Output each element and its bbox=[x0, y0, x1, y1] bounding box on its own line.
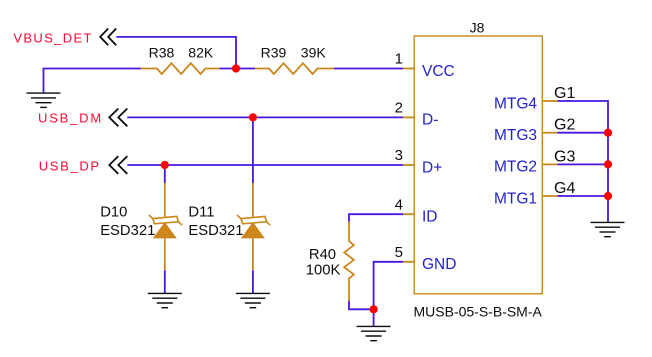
svg-text:R38: R38 bbox=[149, 45, 175, 61]
svg-text:ESD321: ESD321 bbox=[188, 223, 243, 239]
svg-text:G3: G3 bbox=[554, 148, 575, 165]
svg-text:VCC: VCC bbox=[422, 63, 455, 80]
svg-text:J8: J8 bbox=[470, 20, 485, 36]
svg-text:4: 4 bbox=[395, 196, 403, 213]
svg-text:MTG1: MTG1 bbox=[494, 190, 537, 207]
svg-text:D-: D- bbox=[422, 112, 438, 129]
svg-text:VBUS_DET: VBUS_DET bbox=[13, 30, 92, 45]
svg-text:1: 1 bbox=[395, 51, 403, 68]
svg-text:ESD321: ESD321 bbox=[100, 223, 155, 239]
svg-text:R39: R39 bbox=[261, 45, 287, 61]
svg-text:G2: G2 bbox=[554, 117, 575, 134]
svg-text:GND: GND bbox=[422, 256, 456, 273]
svg-text:ID: ID bbox=[422, 209, 438, 226]
svg-text:MUSB-05-S-B-SM-A: MUSB-05-S-B-SM-A bbox=[414, 304, 543, 320]
svg-text:MTG4: MTG4 bbox=[494, 95, 537, 112]
svg-text:D+: D+ bbox=[422, 159, 442, 176]
svg-text:5: 5 bbox=[395, 244, 403, 261]
svg-text:MTG2: MTG2 bbox=[494, 159, 537, 176]
svg-text:D11: D11 bbox=[188, 205, 214, 221]
svg-text:2: 2 bbox=[395, 100, 403, 117]
svg-text:100K: 100K bbox=[306, 263, 341, 279]
svg-text:G1: G1 bbox=[554, 85, 575, 102]
svg-text:USB_DP: USB_DP bbox=[39, 159, 101, 174]
svg-text:R40: R40 bbox=[309, 247, 336, 263]
svg-text:3: 3 bbox=[395, 147, 403, 164]
svg-text:MTG3: MTG3 bbox=[494, 127, 537, 144]
svg-text:D10: D10 bbox=[100, 205, 127, 221]
svg-text:G4: G4 bbox=[554, 180, 575, 197]
svg-text:39K: 39K bbox=[301, 45, 327, 61]
svg-text:82K: 82K bbox=[188, 45, 214, 61]
svg-text:USB_DM: USB_DM bbox=[38, 110, 103, 125]
